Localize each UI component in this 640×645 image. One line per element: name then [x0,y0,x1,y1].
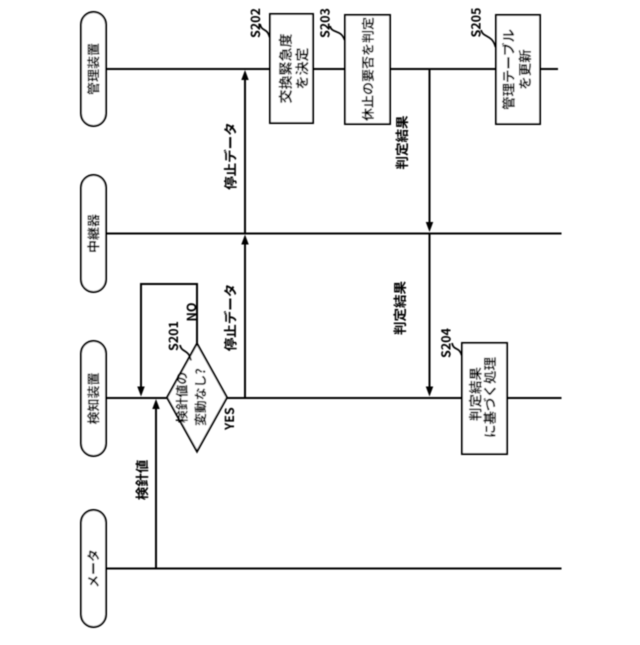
process box S204 判定結果に基づく処理 [462,343,507,454]
process box S203 休止の要否を判定 [345,15,390,124]
label NO [187,303,197,320]
node 中継器 header capsule [81,175,106,292]
label S202 with connector squiggle [251,9,270,38]
label S203 with connector squiggle [320,9,344,40]
label S201 with connector squiggle [169,322,191,361]
process box S202 交換緊急度を決定 [270,14,313,123]
wire arrow 検針値 メータ→検知装置 [136,399,160,569]
wire arrow 停止データ 中継器→管理装置 [224,70,249,234]
node メータ header capsule [81,510,106,627]
wire lifeline メータ [104,568,562,570]
wire arrow 判定結果 中継器→検知装置 [393,234,433,397]
label S205 with connector squiggle [471,8,495,47]
wire lifeline 中継器 [104,233,562,235]
node 検知装置 header capsule [81,341,106,456]
wire NO loop back to 検知装置 lifeline [137,284,197,397]
label S204 with connector squiggle [441,328,462,357]
process box S205 管理テーブルを更新 [496,15,540,124]
wire arrow 停止データ 検知装置→中継器 [224,235,249,399]
decision diamond S201 検針値の変動なし? [167,344,227,452]
node 管理装置 header capsule [81,12,106,126]
wire arrow 判定結果 管理装置→中継器 [395,69,433,232]
wire lifeline 検知装置 [104,397,562,399]
label YES [225,408,235,430]
wire lifeline 管理装置 [104,68,558,70]
